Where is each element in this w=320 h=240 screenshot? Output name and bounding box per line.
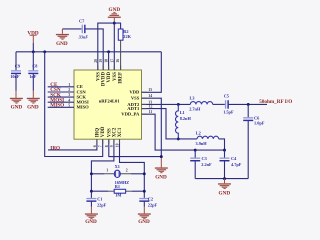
svg-text:6: 6 (93, 145, 97, 147)
svg-text:4: 4 (68, 98, 70, 102)
pin names right inside IC (121, 90, 140, 117)
svg-text:GND: GND (155, 174, 167, 180)
svg-text:22K: 22K (123, 34, 131, 39)
node junction crystal left (90, 172, 93, 175)
svg-text:IRQ: IRQ (50, 145, 60, 151)
node junction bus-left rail (43, 50, 46, 53)
svg-text:1M: 1M (115, 192, 121, 197)
ground GND under C9 (10, 98, 23, 111)
node junction L1 bottom (177, 137, 180, 140)
svg-text:C9: C9 (15, 64, 20, 69)
svg-text:11: 11 (149, 110, 153, 114)
svg-text:C2: C2 (148, 197, 153, 202)
label net SCK (48, 92, 74, 98)
capacitor C7 33nF (62, 18, 103, 70)
ground GND bottom right (218, 179, 231, 197)
svg-text:VDD: VDD (101, 126, 106, 137)
crystal X1 16MHZ (106, 164, 129, 185)
wire pin14 VSS to GND rail (142, 98, 162, 158)
ground GND top (above R2, inverted) (108, 7, 121, 23)
label net CSN (48, 87, 74, 93)
wire pin10 XC1 row to right rail (120, 140, 145, 198)
svg-text:7: 7 (99, 145, 103, 147)
svg-text:10nF: 10nF (10, 74, 20, 79)
svg-text:17: 17 (110, 59, 114, 63)
pin names bottom inside IC (vertical) (95, 126, 123, 137)
svg-text:50ohm_RF I/O: 50ohm_RF I/O (259, 99, 292, 105)
resistor R1 1M (91, 184, 144, 197)
svg-text:R1: R1 (115, 184, 120, 189)
svg-text:GND: GND (85, 219, 97, 225)
svg-text:22pF: 22pF (97, 203, 107, 208)
svg-text:1: 1 (106, 169, 108, 173)
ground GND mid (under pin14 rail) (155, 167, 168, 180)
label net MISO (48, 103, 74, 109)
svg-text:19: 19 (99, 59, 103, 63)
svg-text:nRF24L01: nRF24L01 (99, 98, 121, 103)
pin names top inside IC (vertical) (96, 72, 123, 87)
svg-text:GND: GND (138, 219, 150, 225)
pin names left inside IC (77, 84, 90, 110)
svg-text:8.2nH: 8.2nH (180, 116, 192, 121)
capacitor C4 4.7pF (220, 150, 242, 179)
ground GND left of C7 (56, 29, 69, 47)
node junction VSS rail (160, 155, 163, 158)
svg-text:IRQ: IRQ (95, 128, 100, 137)
svg-text:DVDD: DVDD (102, 72, 107, 87)
capacitor C6 1.0pF (243, 104, 265, 178)
svg-text:C1: C1 (97, 197, 102, 202)
svg-text:33nF: 33nF (78, 35, 89, 40)
label net MOSI (48, 97, 74, 103)
svg-text:8: 8 (105, 145, 109, 147)
wire pin17 riser (113, 23, 115, 70)
wire bus right leg to pin15 (142, 52, 162, 93)
svg-text:XC2: XC2 (112, 127, 117, 137)
svg-text:3.9nH: 3.9nH (196, 141, 208, 146)
capacitor C5 1.5pF (223, 94, 267, 115)
capacitor C3 2.2nF (190, 150, 212, 179)
node junction R1 right (143, 190, 146, 193)
wire pin8 VSS row (109, 140, 162, 157)
svg-text:X1: X1 (115, 164, 120, 169)
svg-text:GND: GND (11, 105, 23, 111)
capacitor C2 22pF (139, 197, 157, 214)
wire IC pin stubs (gray) (97, 66, 147, 144)
svg-text:20: 20 (94, 59, 98, 63)
svg-text:22pF: 22pF (148, 203, 158, 208)
node junction C6 top (247, 103, 250, 106)
svg-text:VSS: VSS (131, 96, 140, 101)
node junction R1 left (90, 190, 93, 193)
svg-text:IREF: IREF (119, 72, 124, 84)
wire crystal row (91, 173, 104, 175)
svg-text:15: 15 (148, 88, 152, 92)
svg-text:VDD: VDD (129, 90, 140, 95)
power VDD symbol (27, 30, 38, 51)
svg-text:C4: C4 (231, 156, 237, 161)
capacitor C1 22pF (86, 191, 106, 213)
svg-text:C5: C5 (224, 94, 229, 99)
svg-text:12: 12 (149, 105, 153, 109)
wire pin18 riser (108, 52, 110, 70)
node junction C4 top (223, 149, 226, 152)
svg-text:2: 2 (68, 88, 70, 92)
ground GND under C2 (138, 213, 151, 225)
wire top GND to pin20 riser (98, 23, 115, 70)
svg-text:L3: L3 (190, 95, 195, 100)
svg-text:MISO: MISO (77, 105, 90, 110)
ground GND under C1 (85, 213, 98, 225)
svg-text:16: 16 (116, 59, 120, 63)
svg-text:1.0pF: 1.0pF (254, 120, 265, 125)
svg-text:10: 10 (116, 143, 120, 147)
wire VDD bus (16, 51, 161, 53)
ground GND under C8 (27, 98, 40, 111)
inductor L3 2.7nH (189, 95, 225, 111)
pin numbers top (vertical) (94, 59, 120, 63)
wire pin12 ANT1 route (142, 109, 198, 139)
svg-text:1: 1 (68, 83, 70, 87)
svg-text:VDD_PA: VDD_PA (121, 112, 140, 117)
svg-text:C3: C3 (202, 156, 207, 161)
svg-text:1.5pF: 1.5pF (223, 110, 234, 115)
svg-text:18: 18 (105, 59, 109, 63)
resistor R2 22K (114, 23, 131, 70)
capacitor C9 (10, 52, 21, 98)
node junction L1 top (177, 103, 180, 106)
svg-text:3: 3 (68, 93, 70, 97)
svg-text:GND: GND (56, 41, 68, 47)
node junction bus-VDD/C8 (32, 50, 35, 53)
pin numbers right (148, 88, 152, 114)
svg-text:2.2nF: 2.2nF (201, 162, 212, 167)
inductor L2 3.9nH (196, 130, 225, 150)
node junction crystal right (143, 172, 146, 175)
node junction at top GND (113, 22, 116, 25)
label net IRQ (48, 140, 97, 152)
svg-text:1nF: 1nF (29, 74, 37, 79)
svg-text:XC1: XC1 (118, 127, 123, 137)
svg-text:MISO: MISO (50, 103, 64, 109)
op-amp U1 nRF24L01 IC body (74, 70, 142, 139)
wire pin9 XC2 row to left rail (91, 140, 114, 192)
svg-text:C8: C8 (32, 64, 37, 69)
pin numbers bottom (vertical) (93, 143, 120, 147)
svg-text:VDD: VDD (107, 72, 112, 83)
svg-text:9: 9 (110, 145, 114, 147)
svg-text:14: 14 (148, 94, 152, 98)
capacitor C8 (28, 52, 38, 98)
node junction GND stem (223, 177, 226, 180)
svg-text:ADT1: ADT1 (127, 106, 140, 111)
wire bottom RF ground row (195, 178, 248, 180)
svg-text:2: 2 (126, 169, 128, 173)
node junction bus-pin18 (107, 50, 110, 53)
svg-text:L1: L1 (180, 110, 185, 115)
inductor L1 8.2nH (vertical) (176, 104, 192, 138)
svg-text:4.7pF: 4.7pF (231, 162, 242, 167)
svg-text:VSS: VSS (113, 72, 118, 81)
wire pin11 VDD_PA route (142, 114, 225, 150)
svg-text:2.7nH: 2.7nH (189, 106, 201, 111)
svg-text:L2: L2 (196, 130, 201, 135)
label net CE (48, 82, 74, 88)
node junction C3 top (194, 149, 197, 152)
wire left VDD rail down to pin7 (45, 52, 103, 157)
svg-text:5: 5 (68, 103, 70, 107)
svg-text:VSS: VSS (96, 72, 101, 81)
wire pin13 ANT2 row (142, 103, 191, 105)
svg-text:GND: GND (27, 105, 39, 111)
svg-text:GND: GND (219, 190, 231, 196)
svg-text:C7: C7 (79, 18, 85, 23)
